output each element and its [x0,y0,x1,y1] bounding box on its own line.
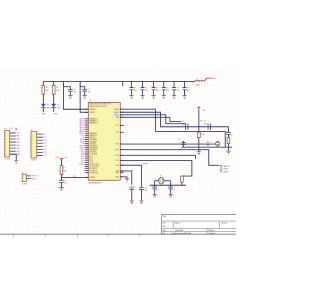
svg-text:L?: L? [196,78,198,80]
wire AVCC net [120,115,185,124]
svg-text:104: 104 [156,90,159,92]
wire branch to C1 [63,87,70,90]
capacitor C1 [68,89,73,91]
crystal Y1 [159,177,164,184]
wire C4 to ground [142,90,144,96]
svg-text:CON2: CON2 [22,183,27,185]
power flag VCC mic bias [197,107,200,110]
svg-text:Title: Title [163,215,166,218]
capacitor C16 [168,187,173,189]
connector P? pins [37,134,43,155]
svg-text:P?: P? [5,129,7,131]
U1 right pins [120,109,124,177]
svg-text:R?: R? [63,167,65,169]
resistor R6 [180,176,183,182]
power bar reset pullup [59,158,63,160]
svg-text:RST: RST [73,176,76,178]
ground below C7 [172,96,176,99]
svg-text:104: 104 [145,90,148,92]
svg-text:OC2: OC2 [116,132,120,134]
wire crystal left leg [154,181,156,187]
svg-text:J?: J? [22,172,24,174]
connector P? body [5,130,10,157]
svg-text:SPKOUT: SPKOUT [223,166,230,168]
capacitor C10 series [208,124,210,130]
svg-text:104: 104 [166,90,169,92]
wire C16 ground [170,189,172,194]
wire C6 to ground [163,90,165,96]
wire rail to C3 [131,81,133,87]
ground below C14 [130,201,134,204]
svg-text:1.5: 1.5 [230,135,232,137]
ground below C1 [68,96,72,99]
wire C3 to ground [131,90,133,96]
svg-text:TOSC1: TOSC1 [78,164,84,166]
wire rail to IC XTAL pin [80,81,88,112]
ground mic rail [226,151,230,154]
svg-text:Drawn By:: Drawn By: [208,233,216,235]
svg-text:XTAL1/BSEL2 PD1/TXD: XTAL1/BSEL2 PD1/TXD [89,105,107,108]
capacitor C2 [82,89,87,91]
ground below C5 [151,96,155,99]
svg-text:PC4: PC4 [43,146,46,148]
svg-text:PA7: PA7 [116,116,119,119]
wire mic rail [181,146,232,148]
resistor R4 [197,132,200,137]
wire SPKER net [120,165,141,187]
svg-text:22: 22 [157,190,159,192]
capacitor C6 [162,88,166,90]
svg-text:104: 104 [204,123,207,125]
connector J3 body [22,174,26,181]
svg-text:CON8: CON8 [31,159,36,161]
svg-text:SPKER: SPKER [142,164,149,166]
svg-text:PC2: PC2 [43,140,46,142]
capacitor C12 [226,132,231,134]
svg-text:Y?: Y? [160,175,162,177]
connector P? body [31,132,37,158]
svg-text:AGND: AGND [223,170,229,173]
wire rail stub right of IC [122,81,124,86]
svg-text:RESET: RESET [89,109,96,111]
wire AREF net [120,109,225,147]
svg-text:ATMEGA8535: ATMEGA8535 [88,181,101,184]
wire R2 to D2 [53,94,55,104]
capacitor C8 [183,88,187,90]
svg-text:PD7: PD7 [116,144,119,146]
svg-text:ICP1: ICP1 [115,149,119,151]
wire C2 to ground [84,91,86,95]
wire OC1A net [120,155,195,159]
wire branch to C2 [80,87,85,90]
svg-text:Revision: Revision [221,223,227,225]
wire R4 to ground [198,137,200,151]
wire D2 down [53,108,55,112]
svg-text:104: 104 [87,92,90,94]
sheet bottom border [0,233,236,235]
svg-text:Number: Number [174,223,180,225]
svg-text:PA0: PA0 [16,135,19,138]
wire P1 ground stub [10,154,17,160]
ground below C17 [59,188,65,191]
wire VCC to band [198,109,200,132]
capacitor C13 [139,188,144,190]
wire C14 down [131,189,133,201]
resistor R2 [52,85,55,94]
wire C1 to ground [69,91,71,95]
svg-text:104: 104 [176,90,179,92]
title block inner lines [162,221,237,235]
sheet background grid [0,67,236,234]
svg-text:C?: C? [178,139,180,141]
svg-text:PA2: PA2 [16,141,19,144]
resistor R1 [42,85,45,94]
wire rail to C5 [153,81,155,87]
capacitor C4 [141,88,145,90]
ground below C13 [139,201,143,204]
ground below C4 [140,96,144,99]
wire cap to mic rail left [182,141,184,147]
wire C12 to R5 [227,134,229,137]
svg-text:U?: U? [89,101,91,103]
ground below C3 [129,96,133,99]
svg-text:CON8: CON8 [5,158,10,160]
wire C15 ground [154,189,156,194]
power flag VCC top right [204,78,213,81]
svg-text:R?: R? [200,121,202,123]
wire OC1B net [120,160,192,176]
wire IC ground stub [120,177,127,178]
wire rail to C6 [163,81,165,87]
svg-text:104: 104 [144,190,147,192]
resistor R7 reset pullup [60,165,63,174]
svg-text:PC6: PC6 [43,152,46,154]
wire D1 down [42,108,44,112]
wire ICP1 net [120,150,219,166]
svg-text:22: 22 [173,190,175,192]
wire mic to rail [217,146,219,147]
capacitor C11 [181,143,186,145]
resistor R5 [227,137,230,143]
connector P? pins [10,133,16,154]
microcontroller U1 body [88,102,120,180]
wire PA7 net [120,117,181,121]
svg-text:Size: Size [163,223,166,225]
wire R1 to D1 [42,94,44,104]
connector J3 pins [26,176,31,179]
ground below P1 [14,161,18,164]
svg-text:PA2/ADC2: PA2/ADC2 [89,122,97,125]
svg-text:PD4/OC1B: PD4/OC1B [89,172,99,174]
wire crystal bottom rail [150,184,186,186]
wire rail to C8 [184,81,186,87]
microphone MK1 [215,142,219,146]
net port MICIN [220,168,223,169]
svg-text:PA3: PA3 [16,144,19,147]
wire C17 to ground [60,182,62,187]
svg-text:104: 104 [73,92,76,94]
ground mic bias [197,152,201,155]
svg-text:PA4: PA4 [16,147,19,150]
svg-text:XTAL1: XTAL1 [89,111,94,114]
wire R6 bottom [181,182,183,185]
svg-text:R?: R? [56,87,58,89]
wire crystal horizontal legs [155,180,159,182]
wire AGND net [120,112,228,127]
wire rail to IC RESET pin [63,81,88,109]
ground IC [125,178,129,181]
wire R5 to mic rail [227,144,229,148]
wire C7 to ground [173,90,175,96]
ground below C6 [162,96,166,99]
wire rail to C4 [142,81,144,87]
wire VCC top rail [43,80,195,82]
svg-text:R?: R? [46,87,48,89]
svg-text:PC5: PC5 [43,149,46,151]
svg-text:P?: P? [31,130,33,132]
svg-text:SPKOUT: SPKOUT [32,176,39,178]
svg-text:104: 104 [64,182,67,184]
svg-text:+: + [135,186,136,188]
wire C5 to ground [153,90,155,96]
capacitor C9 series [186,124,188,130]
capacitor C5 [152,88,156,90]
svg-text:104: 104 [134,90,137,92]
svg-text:PA1: PA1 [16,138,19,141]
svg-text:C?: C? [144,188,146,190]
svg-text:PD4: PD4 [116,165,119,167]
wire rail to R2 [53,81,55,85]
wire PD6 net [120,171,132,185]
svg-text:PA5: PA5 [16,150,19,153]
ground below C16 [168,194,172,197]
svg-text:PC7: PC7 [43,155,46,157]
svg-text:D?: D? [47,105,49,107]
wire crystal right leg [170,181,172,187]
svg-text:PC7: PC7 [116,125,119,127]
wire PD7 to mic [120,143,215,145]
capacitor C3 [130,88,134,90]
svg-text:PC0: PC0 [43,134,46,136]
svg-text:RESET: RESET [89,177,96,179]
svg-text:AGND: AGND [114,111,120,114]
svg-text:104: 104 [187,90,190,92]
wire C8 to ground [184,90,186,96]
ground below C8 [182,96,186,99]
svg-text:PC3: PC3 [43,143,46,145]
svg-text:4-May-2018: 4-May-2018 [175,230,183,232]
svg-text:D?: D? [57,105,59,107]
net port AGND [220,171,223,172]
svg-text:104: 104 [182,123,185,125]
wire reset node to IC [61,177,88,179]
svg-text:1.0M: 1.0M [201,134,205,136]
net port SPKOUT [220,165,223,166]
wire C13 to ground [140,190,142,201]
wire right chain [227,127,229,132]
wire rail to C7 [173,81,175,87]
capacitor C7 [172,88,176,90]
wire VCC bar to R7 [60,159,62,166]
ground below C2 [82,96,86,99]
inductor L1 ferrite bead [195,80,204,81]
capacitor C14 electrolytic [129,186,134,188]
wire mic rail to ground [227,147,229,151]
wire rail to R1 [42,81,44,85]
title block outline [162,214,237,234]
wire R7 to reset node [60,175,62,180]
capacitor C15 [152,187,157,189]
LED D2 [51,104,56,108]
LED D1 [41,104,46,108]
ground below C15 [152,194,156,197]
U1 left pins [85,109,88,177]
capacitor C17 reset [59,180,64,182]
svg-text:PC1: PC1 [43,137,46,139]
